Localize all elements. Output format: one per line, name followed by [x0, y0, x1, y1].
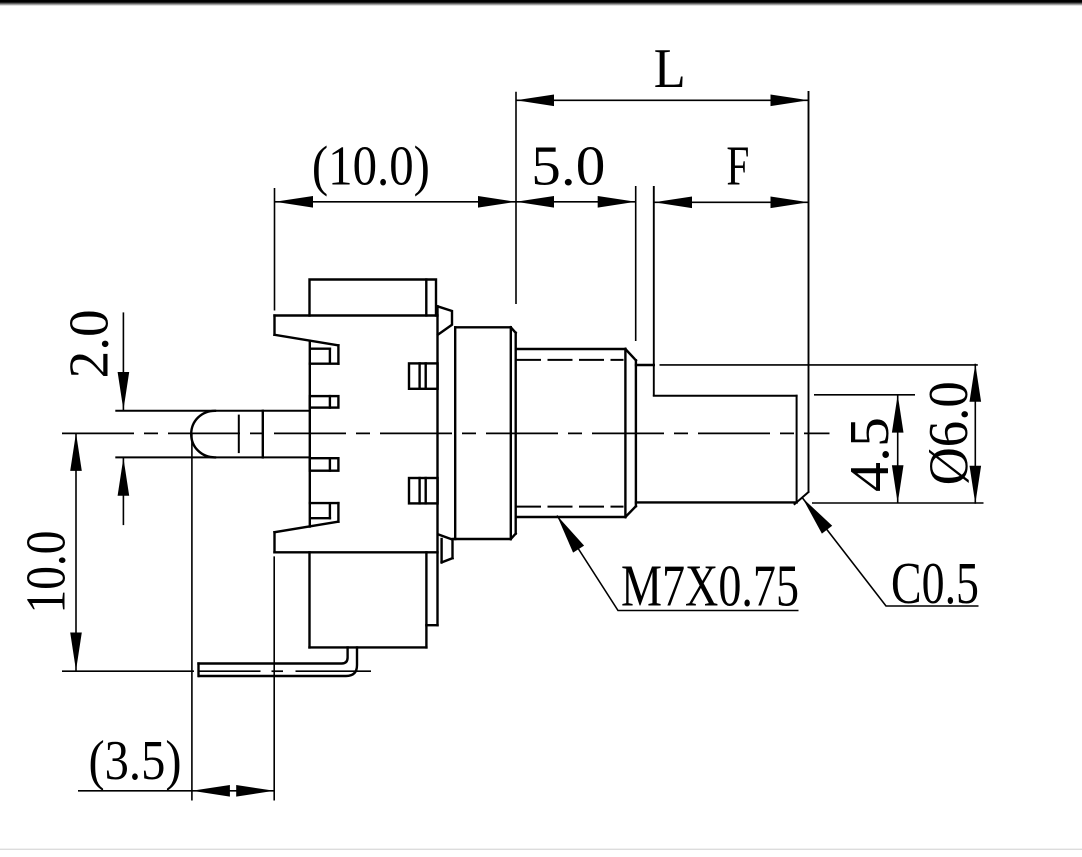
flange top slant — [275, 335, 339, 346]
dim line (10.0) — [275, 201, 516, 203]
dim line F — [654, 201, 809, 203]
extension line (10.0) left — [274, 188, 276, 311]
arrow leader M7 — [557, 516, 584, 553]
extension line 4.5/dia6 bottom — [812, 502, 984, 504]
left tab T1 outer — [310, 345, 339, 363]
arrow 4.5 bottom — [892, 465, 904, 503]
front plate foot tab — [442, 539, 453, 562]
dim line 2.0 upper — [122, 312, 124, 410]
shaft end chamfer — [795, 492, 809, 504]
arrow dia6 bottom — [970, 466, 982, 504]
extension line dia6 top — [660, 364, 978, 366]
flange top edge — [275, 314, 438, 316]
page top bar — [0, 0, 1082, 6]
svg-text:10.0: 10.0 — [16, 531, 78, 614]
svg-text:F: F — [726, 136, 749, 198]
terminal pin center tick — [238, 416, 240, 453]
dim line 10.0 — [75, 433, 77, 671]
arrow F right — [771, 197, 809, 209]
extension line F left / flat start edge — [653, 186, 655, 396]
top cap — [310, 280, 437, 316]
left tab T4 inner window — [311, 504, 330, 518]
terminal pin top edge — [116, 410, 309, 412]
main axis center line — [62, 432, 830, 434]
terminal pin bottom edge — [116, 456, 309, 458]
threaded bushing body — [517, 349, 636, 517]
shaft flat line — [654, 395, 797, 397]
right tab T6 — [409, 478, 438, 503]
arrow (10.0) left — [275, 196, 313, 208]
dim line L — [516, 99, 809, 101]
bracket strip and foot top surface — [199, 647, 348, 663]
lower block — [310, 552, 427, 647]
page bottom line — [0, 849, 1082, 850]
dim line 2.0 lower — [122, 458, 124, 525]
thread root dashed top — [517, 359, 623, 361]
terminal pin bend line — [262, 411, 264, 458]
shaft bottom edge — [636, 501, 797, 503]
anti-rotation lug top — [438, 306, 453, 334]
left tab T3 — [310, 458, 339, 471]
arrow 5.0 left — [516, 196, 554, 208]
dim line dia6.0 — [974, 364, 976, 504]
arrow dia6 top — [970, 364, 982, 402]
svg-text:(10.0): (10.0) — [312, 135, 430, 197]
svg-text:2.0: 2.0 — [59, 309, 121, 378]
right tab T5 — [409, 363, 438, 388]
dim line 5.0 — [516, 201, 636, 203]
strip bottom close — [426, 624, 437, 626]
extension line (3.5) left — [191, 434, 193, 801]
anti-rotation lug bottom slant — [438, 534, 452, 539]
flange left edge bottom — [273, 532, 275, 552]
flange bottom slant — [275, 522, 339, 533]
dim line 4.5 — [897, 395, 899, 504]
arrow F left — [654, 197, 692, 209]
svg-text:5.0: 5.0 — [531, 135, 605, 197]
arrow 10.0 bottom — [70, 633, 82, 671]
left tab T2 — [310, 396, 339, 408]
arrow L right — [771, 95, 809, 107]
svg-text:(3.5): (3.5) — [89, 730, 182, 792]
thread root dashed bottom — [517, 506, 623, 508]
arrow (3.5) right — [236, 785, 274, 797]
svg-text:L: L — [654, 38, 686, 100]
svg-text:M7X0.75: M7X0.75 — [621, 553, 799, 619]
svg-text:C0.5: C0.5 — [891, 550, 979, 616]
body right edge — [436, 306, 438, 625]
body left face — [309, 341, 311, 527]
bracket foot end cap — [197, 664, 199, 677]
svg-text:Ø6.0: Ø6.0 — [918, 381, 980, 485]
arrow 2.0 up — [118, 458, 130, 496]
extension line 5.0 right — [635, 186, 637, 341]
flange bottom edge — [275, 551, 438, 553]
arrow L left — [516, 95, 554, 107]
shaft chamfer edge — [796, 396, 798, 503]
leader M7X0.75 — [557, 516, 799, 611]
bracket foot bottom surface — [199, 647, 357, 676]
dim line (3.5) — [78, 790, 274, 792]
arrow 10.0 top — [70, 433, 82, 471]
extension line 10.0 bottom — [62, 670, 194, 672]
arrow (3.5) left — [192, 785, 230, 797]
seat plane hidden dashes — [199, 670, 371, 672]
arrow 2.0 down — [118, 372, 130, 410]
svg-text:4.5: 4.5 — [839, 417, 901, 492]
flange left edge top — [273, 316, 275, 335]
arrow 5.0 right — [598, 196, 636, 208]
extension line L right / shaft end face — [808, 91, 810, 492]
arrow leader C0.5 — [803, 498, 833, 534]
extension line 4.5 top — [814, 394, 915, 396]
left tab T1 inner window — [311, 349, 330, 363]
terminal pin rounded end — [191, 411, 215, 458]
extension line (3.5) right — [273, 556, 275, 800]
left tab T4 outer — [310, 503, 339, 521]
leader C0.5 — [803, 498, 979, 606]
extension line shared L/5.0/(10.0) — [515, 92, 517, 304]
front plate — [454, 327, 516, 539]
shaft top edge — [636, 364, 654, 366]
arrow 4.5 top — [892, 395, 904, 433]
arrow (10.0) right — [478, 196, 516, 208]
